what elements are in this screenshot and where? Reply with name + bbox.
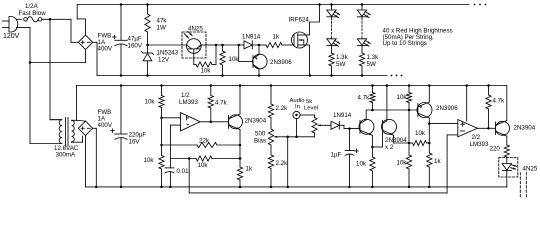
svg-text:1N5243: 1N5243 xyxy=(157,50,179,57)
label 2.2k upper xyxy=(276,105,289,112)
wire Q4 emitter to Q5 base xyxy=(372,133,382,147)
label 5k Level xyxy=(304,99,318,111)
label 2N3904 (output) xyxy=(514,124,536,131)
MOSFET Q2 IRF624 xyxy=(292,32,310,48)
wire level pot bottom to audio ground xyxy=(285,119,315,187)
label 4.7k (U1a) xyxy=(215,100,228,107)
svg-text:1k: 1k xyxy=(273,34,280,41)
svg-text:LM393: LM393 xyxy=(470,141,489,148)
capacitor C3 0.01 xyxy=(165,159,174,187)
label 4.7k (R16) xyxy=(358,95,371,102)
wire fuse to bridge (hot) xyxy=(42,18,79,42)
resistor R9 10k to emitter xyxy=(196,156,241,161)
svg-text:47k: 47k xyxy=(157,18,168,25)
label 47k 1W xyxy=(157,18,168,32)
svg-text:1/2A: 1/2A xyxy=(25,3,39,10)
svg-text:Fast Blow: Fast Blow xyxy=(19,10,47,17)
capacitor C4 1uF xyxy=(345,129,358,187)
svg-text:16V: 16V xyxy=(129,139,141,146)
fuse F1 1/2A Fast Blow xyxy=(24,17,42,22)
wire U1b output xyxy=(477,127,495,130)
svg-text:Bias: Bias xyxy=(254,137,266,144)
label 12.6VAC 300mA xyxy=(54,145,79,159)
svg-text:2.2k: 2.2k xyxy=(276,160,289,167)
continuation dots LED bus xyxy=(391,75,403,77)
label 1N914 (top) xyxy=(242,34,261,41)
label 10k (4N25) xyxy=(201,68,212,75)
svg-text:47µF: 47µF xyxy=(128,35,142,42)
label 2N3904 x 2 xyxy=(385,137,407,151)
AC plug P1 120V xyxy=(3,17,22,33)
svg-text:2.2k: 2.2k xyxy=(276,105,289,112)
transformer T1 secondary xyxy=(72,120,77,142)
svg-text:2N3906: 2N3906 xyxy=(270,59,292,66)
op-amp U1b 2/2 LM393 xyxy=(458,120,478,137)
svg-text:Level: Level xyxy=(304,105,318,111)
svg-text:5W: 5W xyxy=(336,61,345,68)
label 10k (signal) xyxy=(198,162,209,169)
label 10k divider bottom xyxy=(144,157,155,164)
svg-text:300mA: 300mA xyxy=(56,152,76,159)
svg-text:120V: 120V xyxy=(3,33,20,40)
resistor R21 220 xyxy=(504,145,509,164)
label 10k (R18) xyxy=(397,160,408,167)
svg-text:1µF: 1µF xyxy=(331,151,342,158)
wire bridge1 + output to top rail xyxy=(77,5,85,36)
resistor R16 4.7k collector load xyxy=(370,86,375,111)
label 1/2 LM393 (first) xyxy=(179,92,198,106)
resistor R20 4.7k pullup U1b xyxy=(486,86,491,129)
svg-text:In: In xyxy=(295,104,300,110)
wire neutral from plug xyxy=(17,28,32,144)
svg-text:10k: 10k xyxy=(415,130,426,137)
svg-text:2N3904: 2N3904 xyxy=(514,124,536,131)
note text 40 LED strings xyxy=(383,28,453,48)
wire U1a output xyxy=(200,121,229,123)
transformer T1 core xyxy=(66,118,68,147)
transformer T1 primary xyxy=(30,120,62,144)
resistor R12 1k emitter Q3 xyxy=(237,167,242,180)
resistor R22 10k base pullup xyxy=(406,86,411,111)
svg-text:160V: 160V xyxy=(128,42,143,49)
transistor Q7 2N3904 output xyxy=(496,86,510,146)
diode D3 1N914 (audio) xyxy=(326,121,361,130)
label FWB 1A 400V (bottom) xyxy=(98,109,113,129)
resistor R14 2.2k lower xyxy=(268,145,273,187)
label 47uF 160V xyxy=(128,35,143,49)
svg-text:220: 220 xyxy=(490,145,501,152)
potentiometer VR1 500 Bias xyxy=(268,129,285,145)
feedback line to U1b -input xyxy=(189,135,458,193)
transistor Q4 2N3904 buffer1 xyxy=(359,110,374,148)
svg-text:10k: 10k xyxy=(198,162,209,169)
audio input jack J1 xyxy=(293,111,300,118)
transistor Q3 2N3904 (bias) xyxy=(229,86,243,187)
label 2N3906 (top) xyxy=(270,59,292,66)
top DC rail xyxy=(77,3,469,6)
label 4N25 (bottom) xyxy=(523,165,538,172)
svg-text:1k: 1k xyxy=(434,158,441,165)
svg-text:5k: 5k xyxy=(306,99,312,105)
capacitor C2 220uF 16V xyxy=(111,86,128,187)
label 22k xyxy=(199,137,210,144)
resistor R2 10k base-emitter of 4N25 xyxy=(194,45,216,67)
label IRF624 xyxy=(289,17,310,24)
svg-text:10k: 10k xyxy=(144,157,155,164)
label 1/2A Fast Blow xyxy=(19,3,47,17)
diode D2 1N914 xyxy=(239,41,261,49)
wire MOSFET drain to top rail xyxy=(310,5,320,36)
label 0.01 xyxy=(177,168,190,175)
svg-text:0.01: 0.01 xyxy=(177,168,190,175)
wire hot down to transformer primary xyxy=(50,19,62,119)
transistor Q5 2N3904 buffer2 xyxy=(382,86,410,144)
svg-text:LM393: LM393 xyxy=(179,99,198,106)
resistor R10 22k feedback xyxy=(162,142,241,147)
wire V+ to U1b xyxy=(466,86,468,122)
label 1uF xyxy=(331,151,342,158)
wire rail to bridge FWB2 xyxy=(77,86,86,122)
collector bus wire Q4 xyxy=(366,109,418,112)
label 2N3906 (bottom) xyxy=(436,105,458,112)
svg-text:10k: 10k xyxy=(145,99,156,106)
label 1k (gate) xyxy=(273,34,280,41)
svg-text:2N3904: 2N3904 xyxy=(245,117,267,124)
wire bus column down xyxy=(408,110,411,144)
label 1.3k 5W string1 xyxy=(336,54,349,68)
label 10k (pulldown) xyxy=(229,56,240,63)
wire -input network U1a xyxy=(170,125,180,158)
label 4N25 (top) xyxy=(188,26,203,33)
label 10k (R17) xyxy=(415,130,426,137)
+12V rail bottom section xyxy=(77,84,507,87)
svg-text:4N25: 4N25 xyxy=(188,26,203,33)
svg-text:5W: 5W xyxy=(367,61,376,68)
resistor R13 2.2k upper xyxy=(268,86,273,130)
wire bridge1 - output to ground rail xyxy=(93,42,97,75)
svg-text:10k: 10k xyxy=(397,160,408,167)
svg-text:x 2: x 2 xyxy=(385,144,394,151)
bridge rectifier FWB1 FWB 1A 400V xyxy=(78,35,92,49)
svg-text:4.7k: 4.7k xyxy=(215,100,228,107)
label 10k (R22) xyxy=(397,94,408,101)
wire zener node to optocoupler xyxy=(148,44,187,46)
zener diode D1 1N5243 12V xyxy=(141,45,153,76)
svg-text:22k: 22k xyxy=(199,137,210,144)
transistor Q1 2N3906 xyxy=(239,45,267,76)
ground rail bottom section xyxy=(86,186,508,189)
wire jack tip to level pot xyxy=(300,115,314,118)
resistor R7 10k divider top xyxy=(159,86,164,147)
wire bridge2 bottom to ground rail xyxy=(85,136,87,187)
optocoupler U2 4N25 LED side xyxy=(499,158,518,187)
resistor R11 4.7k pullup U1a xyxy=(208,86,213,124)
svg-text:2N3906: 2N3906 xyxy=(436,105,458,112)
resistor R6 1.3k 5W string2 xyxy=(359,53,364,76)
optocoupler U2 4N25 phototransistor xyxy=(182,31,206,58)
potentiometer VR2 5k Level xyxy=(312,118,326,134)
resistor R18 10k below xyxy=(406,143,411,187)
svg-text:1N914: 1N914 xyxy=(242,34,261,41)
label 10k (Q4) xyxy=(356,161,367,168)
resistor R8 10k divider bottom xyxy=(159,145,164,187)
svg-text:10k: 10k xyxy=(229,56,240,63)
label 1k (R19) xyxy=(434,158,441,165)
label FWB 1A 400V (top) xyxy=(98,33,113,53)
wire secondary bottom to bridge FWB2 xyxy=(72,136,83,142)
svg-text:12V: 12V xyxy=(158,57,170,64)
label 120V xyxy=(3,33,20,40)
LED string 2 xyxy=(357,5,370,54)
label Audio In xyxy=(290,98,306,110)
wire MOSFET source to ground rail xyxy=(309,45,312,76)
label 1N914 (audio) xyxy=(333,112,352,119)
svg-text:4.7k: 4.7k xyxy=(358,95,371,102)
svg-text:4.7k: 4.7k xyxy=(493,98,506,105)
svg-text:400V: 400V xyxy=(98,46,113,53)
resistor R17 10k horizontal xyxy=(409,140,431,145)
svg-text:220µF: 220µF xyxy=(129,132,147,139)
label 1N5243 12V xyxy=(157,50,179,64)
continuation dots top rail xyxy=(474,4,487,6)
label 4.7k (U1b) xyxy=(493,98,506,105)
wire Q6 collector to U1b +input xyxy=(429,123,458,125)
transistor Q6 2N3906 xyxy=(417,86,432,144)
svg-text:400V: 400V xyxy=(98,122,113,129)
svg-text:1k: 1k xyxy=(246,166,253,173)
label 500 Bias xyxy=(254,131,266,145)
svg-text:1N914: 1N914 xyxy=(333,112,352,119)
resistor R5 1.3k 5W string1 xyxy=(329,53,334,76)
continuation dashes opto string xyxy=(520,173,526,198)
signal node wire xyxy=(170,157,196,160)
resistor R15 10k Q4 emitter xyxy=(370,147,375,187)
svg-text:10k: 10k xyxy=(397,94,408,101)
label 10k divider top xyxy=(145,99,156,106)
label 2.2k lower xyxy=(276,160,289,167)
svg-text:Up to 10 Strings: Up to 10 Strings xyxy=(383,40,427,47)
label 220uF 16V xyxy=(129,132,147,146)
svg-text:10k: 10k xyxy=(201,68,212,75)
label 220 xyxy=(490,145,501,152)
wire bridge2 right corner down xyxy=(93,128,98,188)
wire 4N25 emitter out xyxy=(201,44,222,47)
capacitor C1 47uF 160V xyxy=(113,5,128,76)
svg-text:4N25: 4N25 xyxy=(523,165,538,172)
label 2/2 LM393 xyxy=(470,134,489,148)
resistor R4 1k gate xyxy=(259,42,294,47)
wire neutral branch to bridge FWB1 xyxy=(30,50,86,63)
label 1k (Q3) xyxy=(246,166,253,173)
resistor R3 10k gate pulldown xyxy=(220,45,225,76)
svg-text:1W: 1W xyxy=(157,25,166,32)
label 2N3904 (bias) xyxy=(245,117,267,124)
ground rail of top section / LED return bus xyxy=(97,74,387,77)
bridge rectifier FWB2 FWB 1A 400V xyxy=(78,121,92,135)
resistor R19 1k xyxy=(427,143,432,187)
wire node to 10k pulldown xyxy=(221,44,240,47)
svg-text:10k: 10k xyxy=(356,161,367,168)
wire divider to +input xyxy=(162,117,181,119)
svg-text:IRF624: IRF624 xyxy=(289,17,310,24)
label 1.3k 5W string2 xyxy=(367,54,380,68)
op-amp U1a 1/2 LM393 xyxy=(181,113,201,131)
LED string 1 xyxy=(327,5,340,54)
resistor R1 47k 1W xyxy=(145,5,150,47)
